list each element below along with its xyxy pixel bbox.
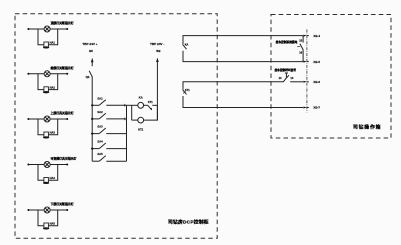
contact KA (left end of loop1) — [183, 36, 303, 44]
terminal XB-7 arrow — [303, 107, 306, 109]
wire — [91, 62, 93, 67]
svg-text:可变频灯具关指示灯: 可变频灯具关指示灯 — [51, 156, 77, 161]
arrow up on -24V rail — [156, 58, 159, 62]
svg-text:TBP 24V -: TBP 24V - — [150, 42, 164, 46]
enclosure: DCP control cabinet (dashed box) — [15, 14, 217, 239]
svg-text:W2: W2 — [156, 49, 161, 53]
node right terminal — [66, 163, 68, 165]
wire parallel branch — [38, 165, 44, 181]
wire — [28, 118, 44, 120]
svg-text:B5: B5 — [89, 49, 93, 53]
svg-text:XB-5: XB-5 — [313, 60, 320, 64]
bell/buzzer HA5 — [44, 223, 49, 228]
switch SA3 rung — [92, 128, 126, 134]
coil KT1 — [138, 117, 144, 123]
pushbutton 14-13 (loop2, in operation box) — [283, 75, 289, 82]
node left terminal — [27, 118, 29, 120]
indicator lamp HL3 group — [27, 116, 68, 139]
svg-text:HA2: HA2 — [50, 86, 56, 90]
svg-text:SA5: SA5 — [97, 152, 103, 156]
node right terminal — [66, 28, 68, 30]
wire — [50, 73, 67, 75]
bell/buzzer HA1 — [44, 42, 49, 47]
svg-text:绞车控制系统馈电: 绞车控制系统馈电 — [275, 40, 298, 44]
lamp HL4 (circle with X) — [44, 162, 50, 168]
wire parallel branch — [38, 119, 44, 135]
indicator lamp HL5 group — [27, 207, 68, 230]
wire — [28, 209, 44, 211]
wire left rail — [91, 77, 93, 161]
svg-text:XB-4: XB-4 — [313, 34, 320, 38]
wire rung1 to KA coil — [127, 104, 138, 106]
lamp HL1 (circle with X) — [44, 26, 50, 32]
contact KT1 (left end of loop2) — [183, 82, 283, 89]
svg-text:HA4: HA4 — [50, 176, 56, 180]
wire — [28, 28, 44, 30]
terminal XB-6 arrow — [303, 81, 306, 83]
svg-text:司钻房DCP控制柜: 司钻房DCP控制柜 — [168, 219, 209, 226]
svg-text:绞车控制呼叫信号: 绞车控制呼叫信号 — [274, 68, 297, 72]
contact KT1 (NC timed) — [148, 105, 152, 109]
wire tick rung2 — [124, 118, 126, 121]
wire — [132, 119, 138, 121]
wire right rail lower + return — [144, 105, 158, 120]
svg-text:XB-7: XB-7 — [313, 106, 320, 110]
svg-text:前部灯关断指示灯: 前部灯关断指示灯 — [51, 65, 74, 70]
svg-text:KA: KA — [139, 95, 143, 99]
svg-text:SA3: SA3 — [97, 125, 103, 129]
svg-text:HA3: HA3 — [50, 131, 56, 135]
switch SA2 rung — [92, 113, 126, 119]
lamp HL2 (circle with X) — [44, 71, 50, 77]
terminal strip dash-dot line — [306, 30, 308, 113]
svg-text:顶部灯关断指示灯: 顶部灯关断指示灯 — [51, 20, 74, 25]
bell/buzzer HA4 — [44, 178, 49, 183]
node left terminal — [27, 209, 29, 211]
coil KA — [138, 102, 144, 108]
node junction on left rail — [91, 133, 93, 135]
svg-text:KT1: KT1 — [138, 127, 144, 131]
wire — [28, 73, 44, 75]
switch SA4 rung — [92, 143, 126, 149]
wire right rail — [156, 61, 158, 120]
svg-text:KA: KA — [185, 44, 189, 47]
node left terminal — [27, 163, 29, 165]
wire — [152, 104, 157, 106]
wire — [144, 104, 148, 106]
node junction on left rail — [91, 118, 93, 120]
switch QS blade — [89, 71, 92, 77]
svg-text:KT1: KT1 — [148, 101, 153, 104]
svg-text:TBP 24V +: TBP 24V + — [82, 42, 97, 46]
node left terminal — [27, 28, 29, 30]
wire — [50, 209, 67, 211]
indicator lamp HL1 group — [27, 26, 68, 49]
svg-text:SA4: SA4 — [97, 140, 103, 144]
terminal XB-5 arrow — [303, 61, 306, 63]
lamp HL3 (circle with X) — [44, 116, 50, 122]
svg-text:HA5: HA5 — [50, 222, 56, 226]
indicator lamp HL2 group — [27, 71, 68, 94]
switch SA5 rung — [92, 156, 126, 162]
svg-text:SA2: SA2 — [97, 110, 103, 114]
arrow up on +24V rail — [91, 58, 94, 62]
contact 15-16 (loop1 right, in operation box) — [302, 36, 304, 43]
wire parallel branch — [38, 74, 44, 90]
node right terminal — [66, 209, 68, 211]
svg-text:XB-6: XB-6 — [313, 80, 320, 84]
svg-text:SA1: SA1 — [97, 96, 103, 100]
wire middle bus — [126, 105, 128, 161]
wire tick rung1 — [124, 104, 126, 107]
wire — [50, 28, 67, 30]
svg-text:QS: QS — [86, 75, 90, 79]
lamp HL5 (circle with X) — [44, 207, 50, 213]
node junction on left rail — [91, 104, 93, 106]
bell/buzzer HA3 — [44, 132, 49, 137]
wire — [28, 164, 44, 166]
svg-text:KT1: KT1 — [185, 89, 190, 92]
svg-text:HA1: HA1 — [50, 41, 56, 45]
node right terminal — [66, 73, 68, 75]
node junction on left rail — [91, 148, 93, 150]
wire parallel branch — [38, 210, 44, 226]
node left terminal — [27, 73, 29, 75]
bell/buzzer HA2 — [44, 87, 49, 92]
enclosure: driller operation box (dashed box) — [271, 15, 391, 139]
indicator lamp HL4 group — [27, 162, 68, 185]
switch SA1 rung — [92, 100, 126, 106]
svg-text:下部灯关断指示灯: 下部灯关断指示灯 — [51, 201, 74, 206]
wire — [50, 118, 67, 120]
wire parallel branch — [38, 29, 44, 45]
svg-text:上部灯具关指示灯: 上部灯具关指示灯 — [51, 110, 74, 115]
svg-text:司钻操作箱: 司钻操作箱 — [353, 124, 381, 131]
wire — [50, 164, 67, 166]
terminal XB-4 arrow — [303, 35, 306, 37]
node right terminal — [66, 118, 68, 120]
wire split vertical — [131, 105, 133, 120]
